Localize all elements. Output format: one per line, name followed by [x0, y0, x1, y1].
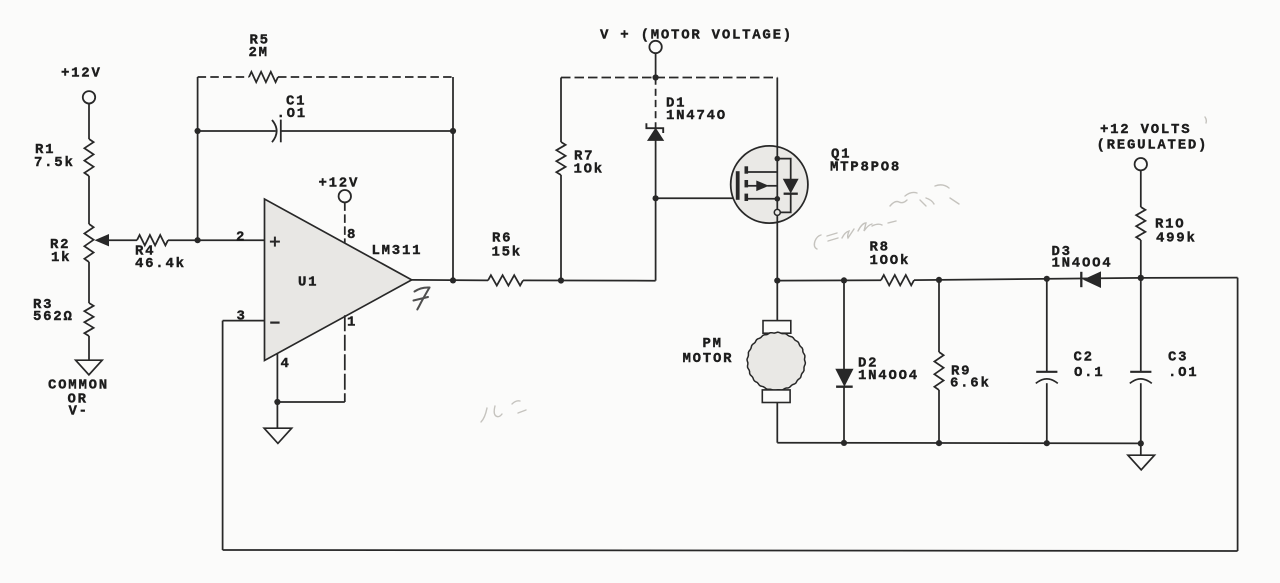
svg-text:+12V: +12V	[61, 66, 102, 82]
svg-text:4: 4	[281, 356, 291, 372]
svg-text:1N4OO4: 1N4OO4	[858, 368, 919, 384]
svg-text:46.4k: 46.4k	[135, 256, 186, 272]
svg-text:C3: C3	[1168, 350, 1188, 366]
svg-text:6.6k: 6.6k	[950, 376, 991, 392]
svg-text:+12 VOLTS: +12 VOLTS	[1100, 122, 1191, 138]
svg-text:.O1: .O1	[1168, 365, 1198, 381]
svg-text:C2: C2	[1074, 350, 1094, 366]
svg-text:PM: PM	[703, 336, 723, 352]
svg-text:2: 2	[236, 230, 246, 246]
svg-text:1: 1	[347, 315, 357, 331]
svg-text:1k: 1k	[51, 250, 71, 266]
svg-text:8: 8	[347, 227, 357, 243]
svg-text:562Ω: 562Ω	[33, 309, 74, 325]
svg-text:LM311: LM311	[372, 243, 423, 259]
svg-text:V-: V-	[69, 404, 89, 420]
svg-text:1OOk: 1OOk	[870, 253, 911, 269]
svg-text:U1: U1	[298, 275, 318, 291]
svg-text:O.1: O.1	[1074, 365, 1104, 381]
svg-text:499k: 499k	[1156, 231, 1197, 247]
svg-text:1N474O: 1N474O	[666, 108, 727, 124]
svg-text:V + (MOTOR VOLTAGE): V + (MOTOR VOLTAGE)	[600, 28, 793, 44]
svg-text:2M: 2M	[249, 45, 269, 61]
svg-text:1N4OO4: 1N4OO4	[1052, 256, 1113, 272]
svg-text:15k: 15k	[492, 245, 522, 261]
svg-text:MTP8PO8: MTP8PO8	[830, 160, 901, 176]
svg-text:7.5k: 7.5k	[34, 155, 75, 171]
svg-text:(REGULATED): (REGULATED)	[1097, 138, 1209, 154]
svg-text:+12V: +12V	[319, 176, 360, 192]
svg-text:MOTOR: MOTOR	[683, 351, 734, 367]
svg-text:1Ok: 1Ok	[574, 162, 604, 178]
svg-text:.O1: .O1	[277, 106, 307, 122]
svg-text:3: 3	[237, 309, 247, 325]
